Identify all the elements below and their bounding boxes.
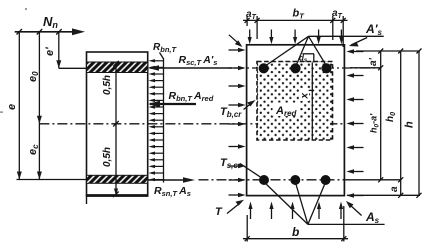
extension line tension steel level left — [17, 179, 87, 181]
force arrow R_sn,T A_s — [148, 179, 186, 181]
hatched band tension steel — [87, 175, 148, 183]
svg-text:h: h — [404, 121, 416, 128]
slashes b — [245, 236, 250, 241]
halo x — [300, 88, 310, 101]
tick 0,5h middle — [113, 121, 119, 127]
tick 0,5h bottom — [113, 192, 119, 198]
tick e at N line — [17, 29, 23, 35]
leader R_bn,T — [160, 53, 164, 59]
a' level extension — [350, 67, 381, 69]
dimension line 0,5h — [115, 62, 117, 195]
A_s label underline — [308, 223, 385, 225]
main horizontal axis dash-dot — [39, 123, 345, 125]
rebars bottom row A_s — [259, 175, 269, 185]
corner arrow bottom-left T — [227, 203, 240, 214]
leader T_b,cr — [244, 103, 253, 110]
bottom edge level extension — [347, 194, 420, 196]
dash-dot bottom steel axis — [199, 179, 345, 181]
tick 0,5h top — [113, 61, 119, 67]
svg-text:e: e — [6, 104, 18, 110]
rebars top row A's — [259, 63, 269, 73]
left pressure arrows (repeat) — [229, 66, 246, 70]
tick e' at N line — [56, 29, 62, 35]
dim line h — [418, 51, 420, 195]
tick e0 at N line — [37, 29, 43, 35]
A's label underline — [309, 35, 384, 37]
top pressure arrows (repeat) — [269, 30, 273, 45]
x tick — [309, 89, 315, 91]
halo A_red — [273, 103, 300, 117]
arrow ec bottom — [37, 172, 42, 180]
force arrow R_sc,T A's — [150, 67, 232, 69]
distributed load arrows (repeat) — [149, 66, 164, 69]
wire N force arrow shaft — [15, 31, 76, 33]
corner arrow bottom-right — [350, 205, 362, 216]
svg-text:b: b — [292, 225, 299, 239]
corner arrow top-left — [229, 35, 239, 44]
dimension line e' — [58, 32, 60, 69]
slashes right dims — [378, 49, 383, 54]
top fan to A's bars — [264, 36, 309, 67]
speck left edge — [0, 112, 3, 113]
speck top-left — [25, 8, 27, 10]
ds mini dimension — [303, 53, 315, 55]
b extension right — [343, 206, 345, 242]
extension ticks top dims — [246, 16, 248, 26]
dimension line e — [18, 32, 20, 180]
arrow 0,5h bottom — [114, 189, 118, 196]
b extension left — [246, 215, 248, 242]
reduced area A_red stipple — [257, 62, 333, 141]
leader T_s,cr — [240, 164, 261, 178]
beam outline (side view) — [87, 52, 148, 196]
node N arrowhead — [72, 28, 85, 35]
distributed load arrows — [149, 59, 164, 62]
section outline — [247, 45, 345, 196]
bottom steel level extension — [345, 179, 401, 181]
svg-text:0,5h: 0,5h — [102, 147, 113, 167]
dim line h0 / a — [400, 51, 402, 195]
right dims: top extension — [356, 50, 420, 52]
A's corner leader arrow — [351, 38, 367, 46]
right pressure arrows (repeat) — [346, 73, 363, 77]
extension line compression steel level left — [59, 67, 87, 69]
bottom fan to A_s bars — [264, 182, 308, 224]
dim line h0-a' — [380, 51, 382, 180]
left pressure arrows — [229, 48, 246, 52]
bottom pressure arrows (repeat) — [269, 202, 273, 220]
beam left edge overshoot — [86, 195, 88, 204]
svg-text:0,5h: 0,5h — [102, 75, 113, 95]
arrow e0 at axis — [37, 116, 42, 124]
dash-dot top steel axis — [234, 67, 381, 69]
svg-text:e': e' — [44, 47, 56, 56]
b dimension line — [243, 238, 348, 240]
force arrow R_bn,T A_red — [150, 103, 196, 105]
right pressure arrows — [346, 49, 363, 53]
top pressure arrows — [248, 30, 252, 45]
dimension line e0/ec — [38, 32, 40, 180]
top dimension line aT bT aT — [243, 19, 348, 21]
beam bottom edge thick — [87, 194, 148, 197]
x depth line — [311, 63, 313, 141]
svg-text:x: x — [300, 93, 311, 100]
arrow e' bottom — [56, 60, 61, 68]
hatched band compression steel — [87, 62, 148, 73]
load line — [163, 58, 165, 183]
bottom pressure arrows — [248, 202, 252, 220]
svg-text:a': a' — [368, 57, 379, 66]
svg-text:a: a — [389, 186, 400, 192]
slashes top dims — [245, 18, 250, 23]
arrow e bottom — [17, 172, 22, 180]
